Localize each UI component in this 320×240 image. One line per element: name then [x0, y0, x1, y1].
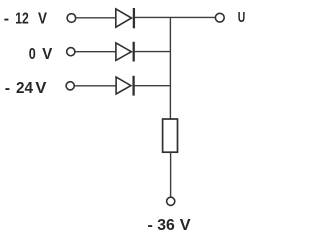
svg-text:V: V — [35, 80, 46, 97]
svg-text:0: 0 — [29, 46, 36, 63]
svg-text:24: 24 — [16, 80, 33, 97]
terminal -36V — [167, 197, 175, 205]
svg-text:V: V — [38, 11, 47, 28]
wire row2 diode to bus — [135, 51, 171, 53]
wire row3 input to diode — [75, 85, 117, 87]
wire row1 diode to output terminal — [135, 16, 216, 18]
terminal input 2 — [67, 48, 75, 56]
svg-text:36: 36 — [157, 217, 175, 234]
diode D3 — [116, 76, 134, 96]
wire row2 input to diode — [75, 51, 116, 53]
label -24V — [5, 80, 47, 97]
terminal input 3 — [66, 82, 74, 90]
svg-text:-: - — [148, 217, 153, 234]
wire resistor to bottom terminal — [170, 152, 172, 197]
resistor R1 — [163, 119, 178, 152]
svg-text:-: - — [5, 80, 10, 97]
terminal output U — [215, 13, 224, 22]
svg-text:V: V — [180, 217, 191, 234]
wire bus vertical — [169, 17, 171, 119]
label -12V — [4, 11, 47, 28]
diode D1 — [116, 8, 134, 28]
svg-text:U: U — [238, 9, 246, 26]
svg-text:V: V — [42, 46, 52, 63]
svg-text:12: 12 — [15, 11, 29, 28]
label 0V — [29, 46, 53, 63]
svg-text:-: - — [4, 11, 9, 28]
wire row1 input to diode — [76, 17, 116, 19]
wire row3 diode to bus — [135, 85, 171, 87]
terminal input 1 — [67, 14, 76, 23]
label -36V — [148, 217, 191, 234]
diode D2 — [116, 42, 134, 62]
